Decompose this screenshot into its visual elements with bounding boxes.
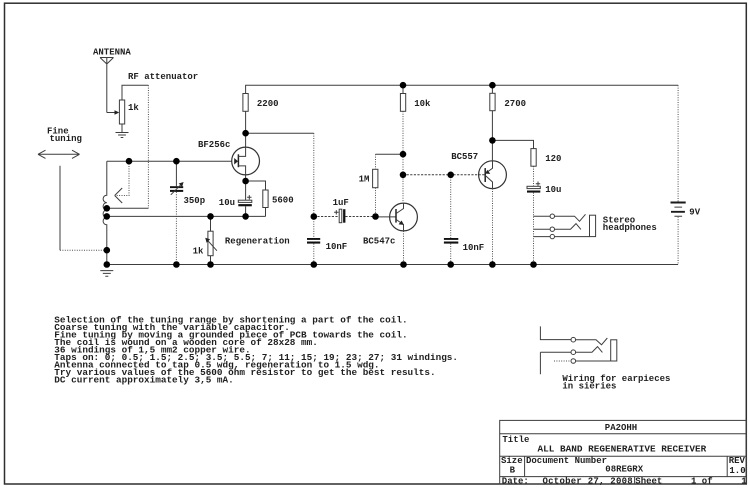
svg-text:ALL BAND REGENERATIVE RECEIVER: ALL BAND REGENERATIVE RECEIVER (538, 444, 707, 455)
svg-text:1k: 1k (128, 103, 139, 113)
svg-text:Title: Title (502, 435, 529, 445)
svg-text:Document Number: Document Number (526, 456, 607, 466)
svg-text:1M: 1M (359, 174, 370, 184)
svg-text:9V: 9V (689, 208, 700, 218)
svg-text:1 of: 1 of (691, 477, 713, 487)
svg-text:1k: 1k (193, 247, 204, 257)
svg-text:10nF: 10nF (326, 242, 348, 252)
svg-text:Date:: Date: (502, 477, 529, 487)
svg-text:in sieries: in sieries (562, 382, 616, 392)
svg-text:RF attenuator: RF attenuator (128, 72, 198, 82)
svg-text:10nF: 10nF (463, 243, 485, 253)
svg-text:B: B (510, 465, 516, 475)
svg-text:BF256c: BF256c (198, 140, 230, 150)
svg-text:DC current approximately 3,5 m: DC current approximately 3,5 mA. (54, 374, 233, 385)
svg-text:REV: REV (729, 456, 746, 466)
svg-text:BC547c: BC547c (363, 237, 395, 247)
svg-text:October 27, 2008: October 27, 2008 (543, 477, 633, 487)
svg-text:Regeneration: Regeneration (225, 237, 290, 247)
svg-text:08REGRX: 08REGRX (605, 464, 643, 474)
svg-text:2700: 2700 (504, 99, 526, 109)
svg-text:120: 120 (545, 154, 561, 164)
svg-text:Sheet: Sheet (635, 477, 662, 487)
svg-text:2200: 2200 (257, 99, 279, 109)
svg-text:10u: 10u (219, 198, 235, 208)
svg-text:PA2OHH: PA2OHH (605, 423, 637, 433)
svg-text:350p: 350p (184, 196, 206, 206)
svg-text:1.0: 1.0 (729, 466, 745, 476)
svg-text:headphones: headphones (603, 223, 657, 233)
svg-text:1uF: 1uF (333, 198, 349, 208)
svg-text:BC557: BC557 (451, 152, 478, 162)
svg-text:5600: 5600 (272, 195, 294, 205)
svg-text:tuning: tuning (50, 134, 82, 144)
svg-text:10k: 10k (414, 99, 431, 109)
svg-text:1: 1 (741, 477, 747, 487)
svg-text:10u: 10u (545, 185, 561, 195)
svg-text:ANTENNA: ANTENNA (93, 48, 131, 58)
